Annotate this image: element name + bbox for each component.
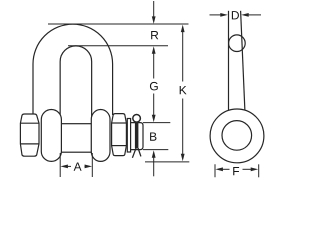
washer xyxy=(127,119,130,153)
arrowhead F left xyxy=(215,167,223,171)
bottom tangent reference line (K) xyxy=(145,161,189,163)
arrowhead R down xyxy=(152,16,156,24)
label B xyxy=(150,132,156,140)
arrowhead K down xyxy=(181,154,185,162)
arrowhead B up xyxy=(152,150,156,158)
shackle bow outer profile xyxy=(33,24,113,115)
label D xyxy=(232,11,239,19)
left ear boss xyxy=(41,110,61,162)
arrowhead D left-pointing xyxy=(241,13,249,17)
dimension D left shaft xyxy=(210,14,222,16)
dimension D right shaft xyxy=(248,14,261,16)
label F xyxy=(233,167,239,175)
cotter pin eye xyxy=(133,115,141,123)
dimension F shaft right xyxy=(243,168,252,170)
bow cross-section circle xyxy=(229,35,246,52)
dimension A right extension line xyxy=(91,153,93,177)
bolt threaded end xyxy=(131,123,143,150)
bolt top extension line (B) xyxy=(143,122,170,124)
dimension F shaft left xyxy=(222,168,230,170)
shackle bow inner profile xyxy=(60,46,92,119)
arrowhead D right-pointing xyxy=(220,13,228,17)
cotter pin legs xyxy=(132,148,136,158)
arrowhead A right xyxy=(85,165,93,169)
dimension G shaft upper xyxy=(153,53,155,79)
eye outer circle xyxy=(210,109,264,163)
dimension A left extension line xyxy=(59,153,61,177)
dimension B lower shaft xyxy=(153,157,155,177)
side view left edge line xyxy=(228,11,230,111)
label G xyxy=(150,82,158,90)
dimension K shaft upper xyxy=(182,31,184,82)
label R xyxy=(151,31,158,39)
bolt bottom extension line (B) xyxy=(143,149,168,151)
label K xyxy=(180,86,187,94)
bolt shank between ears xyxy=(61,124,92,153)
right ear boss xyxy=(91,110,110,162)
dimension R leader shaft xyxy=(153,1,155,17)
arrowhead R/G up xyxy=(152,46,156,54)
top tangent reference line xyxy=(48,23,189,25)
arrowhead K up xyxy=(181,25,185,32)
arrowhead F right xyxy=(251,167,259,171)
arrowhead A left xyxy=(60,165,68,169)
side view right edge line xyxy=(241,11,245,111)
hex nut facet lines xyxy=(112,122,127,124)
pin hole inner circle xyxy=(222,121,252,151)
label A xyxy=(74,162,82,170)
inner-top tangent reference line xyxy=(68,45,168,47)
dimension A shaft right xyxy=(85,165,87,167)
dimension F right extension line xyxy=(258,164,260,177)
cotter pin shaft xyxy=(135,123,139,149)
hex bolt head xyxy=(20,114,39,156)
arrowhead G/B down xyxy=(152,115,156,123)
dimension K shaft lower xyxy=(182,99,184,156)
hex bolt head facet lines xyxy=(20,122,39,124)
hex nut xyxy=(112,114,127,156)
dimension G shaft lower xyxy=(153,94,155,116)
dimension F left extension line xyxy=(214,164,216,177)
dimension A shaft left xyxy=(67,165,72,167)
